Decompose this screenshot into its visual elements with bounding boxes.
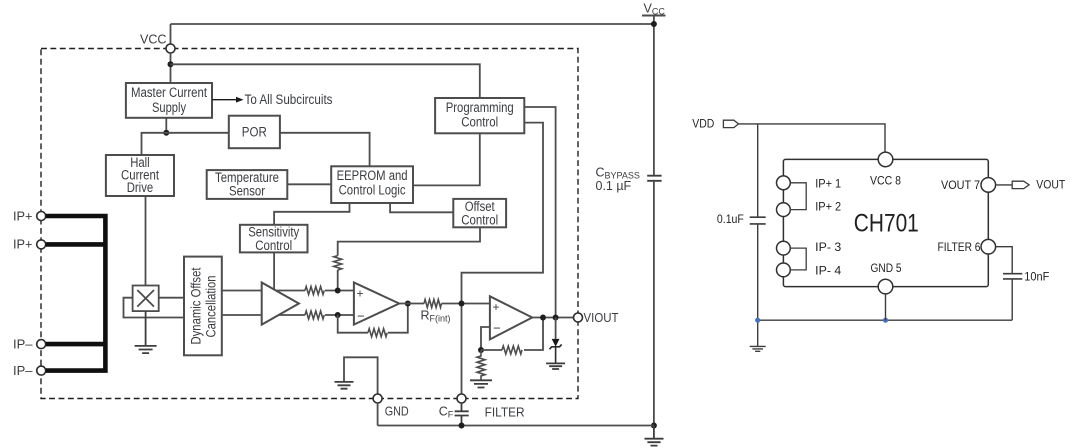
svg-text:IP+: IP+ [13,208,33,223]
svg-text:To All Subcircuits: To All Subcircuits [245,92,333,107]
wire: op-amp2 minus input to feedback [481,327,490,350]
wire: Programming Control output 1 [524,107,555,318]
svg-text:IP–: IP– [13,363,33,378]
svg-text:Control: Control [461,212,498,227]
wire: IP- bracket [790,248,806,270]
svg-text:POR: POR [242,125,267,140]
svg-text:VCC 8: VCC 8 [870,176,901,188]
wire: Programming Control to EEPROM [413,133,480,185]
zener diode clamp [555,318,557,339]
svg-text:+: + [493,300,500,314]
junction output-zener [553,315,559,321]
pin GND 5 circle [878,279,893,294]
pin GND circle [373,394,382,403]
pin FILTER circle [457,394,466,403]
wire: IP+ bracket [790,183,806,210]
ground internal reference [335,382,354,389]
pin IP- 4 circle [777,263,791,277]
block Programming Control [435,98,524,133]
junction CF to bus [459,423,465,429]
svg-text:CH701: CH701 [854,210,919,238]
wire+resistor op-amp2 feedback [481,318,543,351]
wire: op-amp2 output to VIOUT [532,317,573,319]
junction dot blue left [755,318,760,323]
wire: Temperature Sensor to EEPROM [287,183,331,185]
block Dynamic Offset Cancellation [184,257,222,356]
wire: VCC rail vertical lower segment [653,181,655,426]
op-amp 1 triangle [354,283,399,325]
svg-text:IP+ 1: IP+ 1 [815,178,841,190]
svg-text:EEPROM and: EEPROM and [337,168,408,183]
dashed IC boundary box [41,49,578,399]
junction plus node [335,288,341,294]
svg-text:−: − [357,309,365,324]
junction minus node [335,312,341,318]
wire: 10nF to ground bus [1011,279,1013,320]
svg-text:FILTER: FILTER [485,404,525,419]
pin VCC circle [166,44,175,53]
wire: Hall element left wrap to DOC [124,298,186,318]
junction op-amp1 output [405,301,411,307]
junction output-feedback [540,315,546,321]
wire: EEPROM to Offset Control [390,203,453,212]
wire: bypass cap to ground bus [757,224,759,320]
op-amp 2 triangle [490,296,532,339]
svg-text:VOUT 7: VOUT 7 [941,180,980,192]
capacitor 0.1uF plates [750,217,766,224]
svg-text:IP- 4: IP- 4 [815,265,842,277]
svg-text:Cancellation: Cancellation [204,276,219,338]
block POR [229,116,280,149]
svg-text:FILTER 6: FILTER 6 [938,242,981,254]
block Master Current Supply [126,83,212,118]
svg-text:VCC: VCC [140,32,167,47]
wire: Hall Current Drive to Hall element [145,196,147,286]
block Temperature Sensor [207,170,288,199]
svg-text:Control: Control [461,115,498,130]
pin IP- 3 circle [777,241,791,255]
svg-text:Drive: Drive [127,180,154,195]
wire: internal ground to GND pin [344,357,378,394]
wire+resistor RF(int) [399,303,490,305]
power symbol VCC bar (top right) [642,15,666,17]
wire: VCC node to Programming Control [171,64,480,98]
capacitor 10nF plates [1003,274,1022,279]
ground symbol (right schematic) [750,320,766,351]
wire: FILTER pin to 10nF [996,247,1013,274]
pin IP+ 1 circle [777,176,791,190]
wire: trim resistor to plus node [337,270,339,291]
pin IP+ 2 circle [777,203,791,217]
wire: VCC rail vertical upper segment [653,16,655,176]
pin IP+ 2 circle [37,240,46,249]
svg-text:VIOUT: VIOUT [584,310,619,325]
svg-text:Control Logic: Control Logic [339,182,406,197]
wire: POR to EEPROM [280,133,370,167]
wire: ground bus [758,319,1013,321]
arrow To All Subcircuits [212,99,238,101]
ground (bottom right) [645,426,664,446]
block Offset Control [453,199,506,227]
wire: VCC pin drop from rail [170,24,172,44]
block EEPROM and Control Logic [331,166,413,203]
wire: VOUT pin to flag [996,184,1013,186]
svg-text:−: − [493,321,501,336]
wire: VDD branch to bypass cap [757,124,759,217]
wire: Hall element right to DOC [159,297,186,299]
thick current path conductor [46,214,106,373]
wire: Sensitivity Control to amplifier [273,252,275,289]
junction at top rail [651,21,657,27]
svg-text:IP–: IP– [13,336,33,351]
wire: VCC pin to Master Current Supply [170,53,172,83]
pin IP- 4 circle [37,366,46,375]
resistor bottom signal path [305,311,324,319]
junction VCC internal node [168,61,174,67]
port flag VOUT [1012,181,1029,188]
resistor op-amp2 ground leg [477,350,485,380]
wire: DOC outputs to first amp and resistors [222,290,354,292]
svg-text:Dynamic Offset: Dynamic Offset [189,267,204,344]
ground below Hall element [135,311,157,353]
pin FILTER 6 circle [981,239,996,254]
junction at bottom rail [651,423,657,429]
block Sensitivity Control [240,225,308,253]
capacitor CBYPASS plates [647,176,661,181]
wire: supply bus to POR and Hall drop [142,133,229,155]
resistor top signal path [305,287,324,295]
svg-text:+: + [357,287,364,301]
amplifier stage 1 triangle [262,283,299,325]
svg-text:Control: Control [255,238,292,253]
port flag VDD [723,120,738,127]
svg-text:Master Current: Master Current [131,85,207,100]
resistor offset trim (vertical) [334,256,342,270]
wire: GND pin to ground bus [377,403,379,426]
wire: GND pin to bus [885,294,887,320]
Hall element X box [133,286,159,312]
svg-text:0.1 µF: 0.1 µF [596,179,632,193]
svg-text:IP+ 2: IP+ 2 [815,202,841,214]
IC body CH701 [783,159,988,286]
wire: EEPROM to Sensitivity Control [274,203,349,225]
svg-text:IP- 3: IP- 3 [815,242,841,254]
ground below zener [546,363,565,369]
svg-text:VOUT: VOUT [1036,180,1065,192]
svg-text:Sensor: Sensor [229,183,265,198]
svg-text:10nF: 10nF [1024,271,1049,283]
pin IP- 3 circle [37,340,46,349]
pin VCC 8 circle [878,152,893,167]
pin IP+ 1 circle [37,212,46,221]
wire+resistor op-amp1 feedback [338,304,408,333]
junction feedback node [478,347,484,353]
svg-text:Programming: Programming [446,100,514,115]
pin VIOUT circle [574,313,583,322]
junction filter node [459,301,465,307]
svg-text:0.1uF: 0.1uF [717,214,744,226]
wire: ground bus bottom [378,425,654,427]
pin VOUT 7 circle [981,178,996,193]
junction supply bus [163,130,169,136]
wire: Programming Control output 2 [462,123,544,394]
wire: top VCC rail horizontal [171,23,654,25]
wire: VDD to VCC pin [739,124,886,152]
svg-text:GND 5: GND 5 [871,263,902,275]
ground below op-amp2 resistor [470,380,492,387]
svg-text:VDD: VDD [692,118,714,130]
capacitor CF [455,403,469,426]
svg-text:GND: GND [385,403,409,418]
wire: Master supply bottom drop [165,118,167,133]
svg-text:IP+: IP+ [13,237,33,252]
block Hall Current Drive [106,155,174,196]
svg-text:Supply: Supply [152,100,186,115]
wire: Offset Control to trim resistor [338,227,480,255]
junction dot blue GND [883,318,888,323]
